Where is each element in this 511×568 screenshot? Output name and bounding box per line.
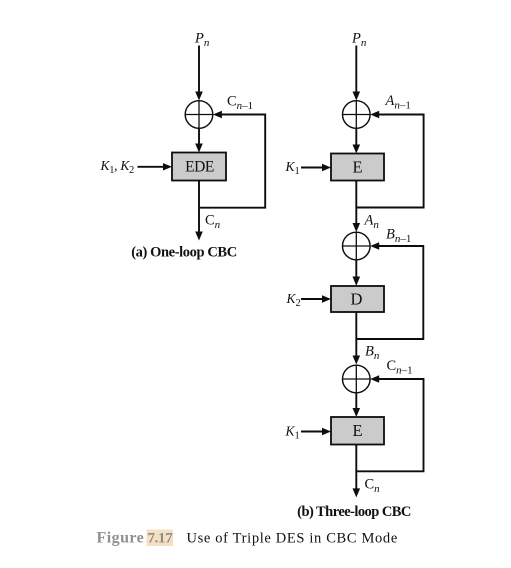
label K1 (E2) <box>285 424 300 442</box>
caption figure title <box>187 531 398 547</box>
block E2 <box>331 417 384 445</box>
wire K1 to E2 <box>301 428 331 435</box>
wire XOR2 to D <box>353 260 361 286</box>
block E1 <box>331 154 384 181</box>
wire XOR3 to E2 <box>353 393 361 417</box>
label K2 <box>286 291 301 309</box>
block EDE <box>172 153 226 181</box>
figure number highlight box <box>147 530 174 547</box>
label Bn-1 <box>386 226 411 245</box>
svg-text:7.17: 7.17 <box>148 531 174 547</box>
wire K2 to D <box>301 295 331 302</box>
label K1 (E1) <box>285 159 300 177</box>
wire Pn input (b) <box>353 46 361 101</box>
wire D output Bn <box>353 312 361 365</box>
label Pn (b) <box>351 30 367 49</box>
label Bn <box>365 343 380 362</box>
caption (b) Three-loop CBC <box>297 504 411 520</box>
XOR node (a) <box>185 101 213 129</box>
XOR node 3 (b) <box>342 365 370 393</box>
label Cn-1 (b) <box>387 358 413 377</box>
label An <box>364 212 380 231</box>
wire XOR1 to E1 <box>353 129 361 154</box>
XOR node 1 (b) <box>342 101 370 129</box>
label An-1 <box>385 93 411 112</box>
XOR node 2 (b) <box>342 232 370 260</box>
wire E1 output An <box>353 181 361 233</box>
wire feedback loop (a) <box>199 111 265 208</box>
label Cn (b) <box>365 476 381 495</box>
wire E2 output Cn <box>353 445 361 498</box>
label Cn (a) <box>205 213 221 232</box>
label Cn-1 (a) <box>227 94 253 113</box>
wire feedback loop 2 (b) <box>356 242 423 339</box>
svg-text:E: E <box>352 421 362 440</box>
wire feedback loop 1 (b) <box>356 111 423 208</box>
wire XOR to EDE (a) <box>195 129 203 153</box>
label K1, K2 <box>100 158 135 176</box>
label Pn (a) <box>194 30 210 49</box>
svg-text:E: E <box>352 158 362 177</box>
caption (a) One-loop CBC <box>131 245 237 261</box>
svg-text:EDE: EDE <box>185 158 214 175</box>
svg-text:D: D <box>351 290 363 309</box>
wire EDE output Cn (a) <box>195 181 203 241</box>
svg-text:(a) One-loop CBC: (a) One-loop CBC <box>131 245 237 261</box>
wire K1 to E1 <box>301 164 331 171</box>
svg-text:(b) Three-loop CBC: (b) Three-loop CBC <box>297 504 411 520</box>
block D <box>331 286 384 312</box>
wire K1,K2 to EDE <box>138 163 173 170</box>
wire feedback loop 3 (b) <box>356 375 423 471</box>
svg-text:Figure: Figure <box>97 530 145 547</box>
caption Figure 7.17 <box>97 530 174 547</box>
wire Pn input (a) <box>195 46 203 101</box>
svg-text:Use of Triple DES in CBC Mode: Use of Triple DES in CBC Mode <box>187 531 398 547</box>
